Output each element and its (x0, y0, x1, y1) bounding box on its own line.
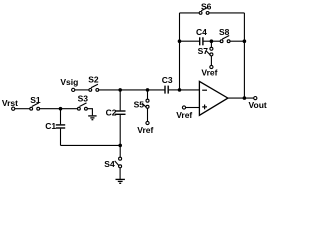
terminal Vout (249, 97, 267, 110)
wire (169, 89, 180, 91)
node (left branch / C4 row) (178, 39, 182, 43)
node F (output/feedback) (243, 96, 247, 100)
svg-text:Vref: Vref (176, 110, 192, 120)
node (right branch / S8 row) (243, 39, 247, 43)
wire (120, 89, 147, 91)
capacitor C4 (196, 27, 207, 46)
switch S1 (30, 95, 41, 110)
switch S8 (219, 27, 230, 43)
svg-text:S6: S6 (201, 2, 212, 12)
svg-text:S7: S7 (198, 46, 209, 56)
svg-text:C1: C1 (45, 121, 56, 131)
op-amp U1 (199, 81, 228, 115)
node E (C4/S7/S8) (210, 39, 214, 43)
svg-text:Vsig: Vsig (60, 77, 78, 87)
node D (op-amp inverting input) (178, 88, 182, 92)
wire (180, 89, 200, 91)
switch S7 (198, 41, 213, 65)
terminal Vsig (60, 77, 78, 92)
wire (15, 108, 30, 110)
svg-text:S2: S2 (88, 75, 99, 85)
wire (feedback right branch) (243, 13, 245, 98)
svg-text:Vout: Vout (249, 100, 267, 110)
svg-text:Vref: Vref (201, 67, 217, 77)
node S5 junction (146, 88, 150, 92)
capacitor C2 (106, 90, 126, 145)
svg-text:C4: C4 (196, 27, 207, 37)
svg-text:S1: S1 (30, 95, 41, 105)
wire (output) (228, 97, 254, 99)
node A (59, 107, 63, 111)
node C (118, 88, 122, 92)
switch S6 (199, 2, 211, 15)
capacitor C3 (162, 75, 173, 94)
svg-text:S3: S3 (78, 94, 89, 104)
svg-text:S8: S8 (219, 27, 230, 37)
svg-text:S4: S4 (104, 159, 115, 169)
wire (75, 89, 89, 91)
wire (61, 144, 121, 146)
svg-text:S5: S5 (134, 100, 145, 110)
terminal Vref (S7) (201, 65, 217, 77)
switch S4 (104, 145, 121, 179)
terminal Vrst (2, 98, 18, 110)
wire (211, 40, 220, 42)
capacitor C1 (45, 109, 65, 146)
switch S2 (88, 75, 99, 92)
terminal Vref (op-amp non-inverting input) (176, 106, 199, 120)
wire (204, 40, 212, 42)
wire (99, 89, 121, 91)
wire (40, 108, 78, 110)
svg-text:Vref: Vref (137, 125, 153, 135)
wire (209, 12, 244, 14)
svg-text:Vrst: Vrst (2, 98, 18, 108)
switch S5 (134, 90, 149, 122)
wire (feedback top) (180, 12, 200, 14)
terminal Vref (S5) (137, 121, 153, 135)
wire (180, 40, 200, 42)
ground (S4) (116, 179, 125, 183)
node B (118, 144, 122, 148)
ground (S3) (88, 116, 96, 120)
switch S3 (78, 94, 89, 110)
wire (230, 40, 244, 42)
svg-text:C3: C3 (162, 75, 173, 85)
svg-text:C2: C2 (106, 107, 117, 117)
wire (feedback left branch) (179, 13, 181, 90)
wire (87, 109, 92, 116)
wire (148, 89, 165, 91)
